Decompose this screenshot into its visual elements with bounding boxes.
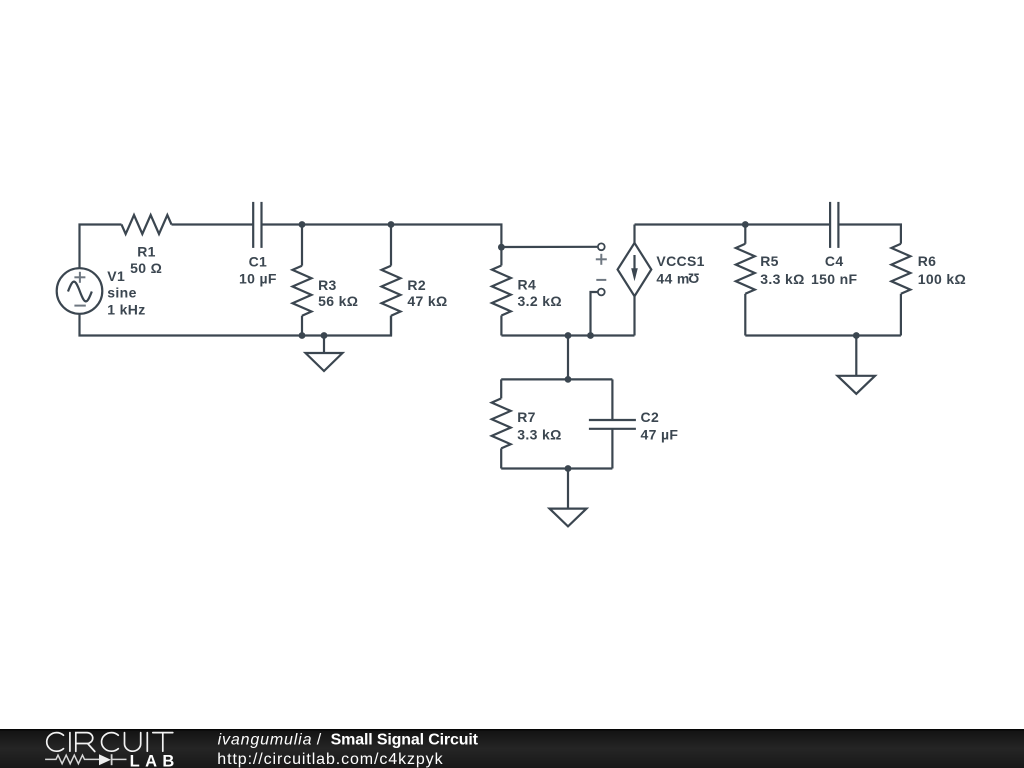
svg-text:100 kΩ: 100 kΩ [918,271,966,287]
svg-text:LAB: LAB [130,753,180,768]
wire: bottom-right rail [745,334,901,336]
resistor R2 [382,225,448,336]
capacitor C1 [239,202,277,287]
wire: R4 node to control + terminal [501,246,597,248]
svg-text:V1: V1 [107,268,125,284]
svg-text:R7: R7 [517,409,536,425]
node: control - junction [587,332,594,339]
wire: - terminal to bottom rail [591,292,598,336]
svg-text:C1: C1 [249,254,268,270]
logo CIRCUIT [47,733,173,752]
ground (right) [838,336,876,394]
node: C1/R3 junction [299,221,306,228]
wire: middle bottom rail [501,334,634,336]
svg-text:VCCS1: VCCS1 [656,253,704,269]
svg-text:R1: R1 [137,244,156,260]
svg-text:56 kΩ: 56 kΩ [318,293,358,309]
wire: bottom-left rail [80,314,392,336]
svg-text:ivangumulia / Small Signal Cir: ivangumulia / Small Signal Circuit [218,731,479,748]
svg-text:47 kΩ: 47 kΩ [407,293,447,309]
capacitor C2 [589,379,679,468]
svg-text:R5: R5 [760,253,779,269]
svg-text:47 µF: 47 µF [641,427,679,443]
node: R5 top junction [742,221,749,228]
dependent source VCCS1 [618,225,705,336]
svg-text:3.3 kΩ: 3.3 kΩ [760,271,804,287]
resistor R4 [492,247,562,335]
node: R7 block top [565,376,572,383]
svg-text:50 Ω: 50 Ω [130,260,162,276]
wire: top-right rail [635,223,831,225]
node: R2 top junction [388,221,395,228]
wire: R1 to C1 [172,223,254,225]
ground (left) [306,336,343,372]
wire: C4 to R6 [838,225,901,244]
resistor R5 [736,225,805,336]
resistor R6 [891,244,966,336]
svg-text:Ω: Ω [688,271,700,287]
svg-text:1 kHz: 1 kHz [107,301,145,317]
svg-text:3.2 kΩ: 3.2 kΩ [518,293,562,309]
capacitor C4 [811,202,858,287]
footer bar [0,729,1024,768]
svg-text:R6: R6 [918,253,937,269]
resistor R1 [122,215,172,276]
resistor R7 [492,379,562,468]
svg-text:C4: C4 [825,253,844,269]
svg-text:150 nF: 150 nF [811,271,858,287]
wire: C1 to R4 column (top rail) [262,225,502,248]
svg-text:http://circuitlab.com/c4kzpyk: http://circuitlab.com/c4kzpyk [217,751,443,768]
terminal + (control port) [596,243,607,264]
node: ground tap right [853,332,860,339]
svg-text:R4: R4 [518,277,537,293]
node: ground tap left [321,332,328,339]
resistor R3 [293,225,359,336]
node: R7 stem junction [565,332,572,339]
svg-text:10 µF: 10 µF [239,271,277,287]
svg-text:3.3 kΩ: 3.3 kΩ [517,427,561,443]
voltage source V1 [57,268,146,317]
ground (center) [550,469,587,527]
wire: R7/C2 block bottom [501,467,612,469]
logo resistor-diode symbol [45,754,126,765]
wire: V1 top lead to top rail [80,225,122,269]
terminal - (control port) [596,280,606,296]
wire: R7/C2 block top [501,378,612,380]
wire: stem to R7/C2 block [567,336,569,380]
svg-text:44 m: 44 m [656,270,689,286]
svg-text:R2: R2 [407,277,426,293]
svg-text:C2: C2 [641,409,660,425]
node: R4 top junction [498,244,505,251]
svg-text:sine: sine [107,285,136,301]
node: R3 bottom [299,332,306,339]
svg-text:R3: R3 [318,277,337,293]
node: R7 block bottom [565,465,572,472]
